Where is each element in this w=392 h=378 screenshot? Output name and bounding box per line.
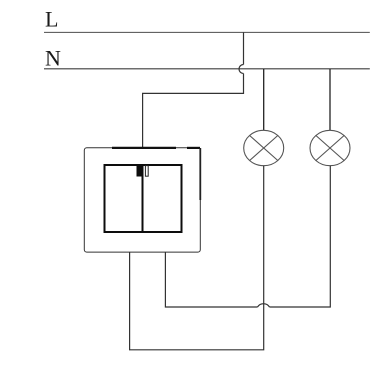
svg-text:L: L [45,7,58,32]
svg-text:N: N [45,45,61,70]
